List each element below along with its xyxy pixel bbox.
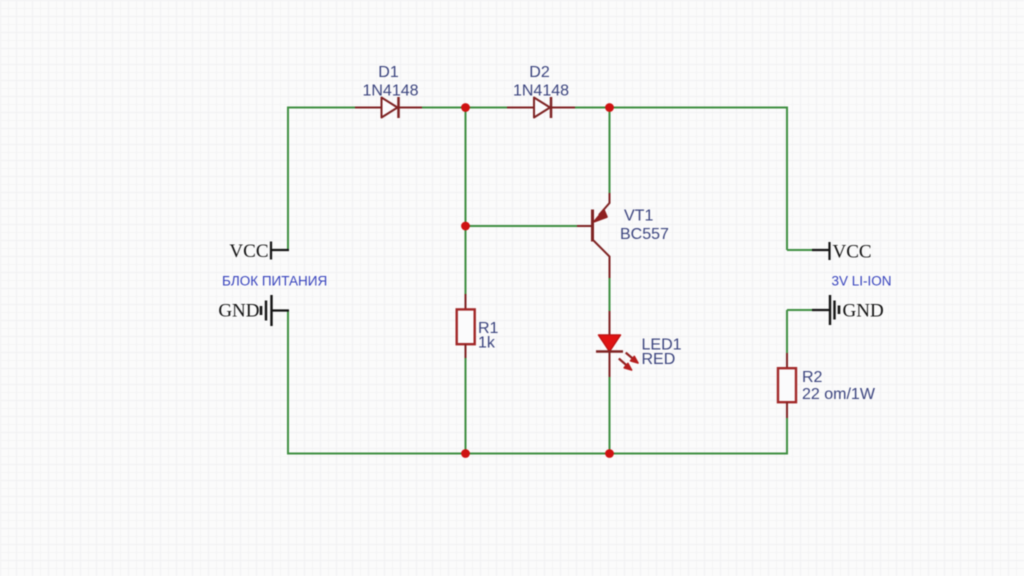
- label BC557: [620, 226, 669, 243]
- svg-text:D2: D2: [529, 64, 550, 81]
- label GND left: [218, 301, 259, 322]
- wire: middle column top (top rail to base junction): [465, 108, 467, 227]
- wire: R2 to bottom rail: [786, 417, 788, 455]
- svg-text:VCC: VCC: [833, 242, 872, 263]
- svg-text:D1: D1: [378, 64, 399, 81]
- svg-text:1N4148: 1N4148: [513, 83, 569, 100]
- diode D2 1N4148: [507, 97, 575, 118]
- label БЛОК ПИТАНИЯ: [222, 274, 327, 289]
- wire: bottom rail: [288, 453, 787, 455]
- svg-text:R2: R2: [802, 369, 823, 386]
- wire: right GND port to R2: [787, 310, 813, 354]
- wire: left rail lower (GND port down to bottom rail): [287, 311, 289, 455]
- junction dot at D2 output node on top rail: [605, 103, 614, 112]
- svg-text:1k: 1k: [478, 335, 496, 352]
- junction dot at D1/D2 node on top rail: [461, 103, 470, 112]
- svg-text:1N4148: 1N4148: [362, 83, 418, 100]
- wire: right column top rail to transistor emitter: [609, 108, 611, 195]
- svg-text:VCC: VCC: [229, 241, 268, 262]
- wire: middle column R1 to bottom rail: [465, 357, 467, 454]
- wire: base wire to transistor: [466, 225, 578, 227]
- label 1k: [478, 335, 496, 352]
- diode D1 1N4148: [355, 97, 422, 118]
- svg-text:BC557: BC557: [620, 226, 669, 243]
- svg-text:VT1: VT1: [624, 208, 653, 225]
- wire: top rail D2 to right corner: [574, 107, 787, 109]
- label D1: [378, 64, 399, 81]
- wire: LED cathode to bottom rail: [609, 376, 611, 454]
- wire: left rail upper (corner down to VCC port): [287, 107, 289, 251]
- resistor R2 22 om/1W: [778, 353, 796, 418]
- label 22 om/1W: [802, 386, 876, 403]
- svg-text:GND: GND: [218, 301, 259, 322]
- ground GND left (battery-style ground symbol): [261, 295, 289, 326]
- label VCC right: [833, 242, 872, 263]
- junction dot at base node on middle column: [461, 222, 470, 231]
- junction dot at bottom rail / LED column: [605, 449, 614, 458]
- label VT1: [624, 208, 653, 225]
- label R2: [802, 369, 823, 386]
- ground GND right (battery-style ground symbol): [812, 295, 839, 325]
- label 1N4148 (D2 value): [513, 83, 569, 100]
- label R1: [478, 320, 499, 337]
- svg-text:RED: RED: [642, 351, 676, 368]
- svg-text:GND: GND: [843, 301, 884, 322]
- junction dot at bottom rail / R1 column: [461, 449, 470, 458]
- label LED1: [642, 337, 682, 354]
- LED LED1 RED: [596, 311, 638, 377]
- wire: right rail upper (corner down to VCC port): [787, 107, 813, 251]
- wire: top rail D1 to D2: [421, 107, 508, 109]
- wire: top rail from left corner to D1: [288, 107, 356, 109]
- label 3V LI-ION: [832, 274, 892, 289]
- label RED: [642, 351, 676, 368]
- svg-text:3V LI-ION: 3V LI-ION: [832, 274, 892, 289]
- port VCC right (net flag pin): [812, 242, 830, 260]
- label GND right: [843, 301, 884, 322]
- svg-text:22 om/1W: 22 om/1W: [802, 386, 876, 403]
- svg-text:БЛОК ПИТАНИЯ: БЛОК ПИТАНИЯ: [222, 274, 327, 289]
- resistor R1 1k: [457, 294, 475, 358]
- label 1N4148 (D1 value): [362, 83, 418, 100]
- label VCC left: [229, 241, 268, 262]
- port VCC left (net flag pin): [271, 242, 289, 260]
- wire: transistor collector to LED anode: [609, 277, 611, 312]
- label D2: [529, 64, 550, 81]
- wire: middle column base junction to R1: [465, 226, 467, 295]
- transistor Q VT1 BC557 (PNP): [577, 193, 610, 278]
